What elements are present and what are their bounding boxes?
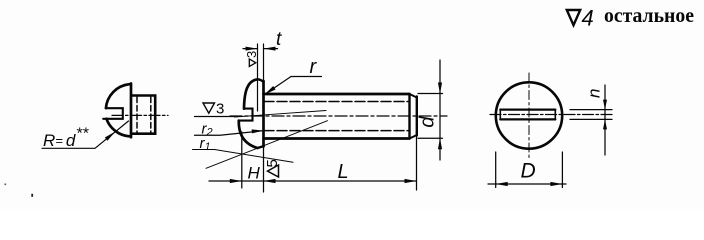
svg-text:R=d**: R=d** [43, 126, 89, 151]
svg-text:остальное: остальное [604, 3, 694, 27]
svg-text:n: n [585, 89, 604, 98]
svg-text:3: 3 [244, 51, 259, 58]
svg-text:5: 5 [264, 159, 281, 167]
svg-text:L: L [338, 161, 349, 183]
svg-text:t: t [276, 29, 282, 50]
svg-text:H: H [248, 164, 261, 183]
svg-text:4: 4 [582, 6, 594, 31]
svg-text:r: r [310, 56, 318, 78]
svg-text:D: D [521, 160, 536, 183]
svg-text:d: d [417, 116, 439, 128]
svg-text:3: 3 [216, 101, 224, 118]
